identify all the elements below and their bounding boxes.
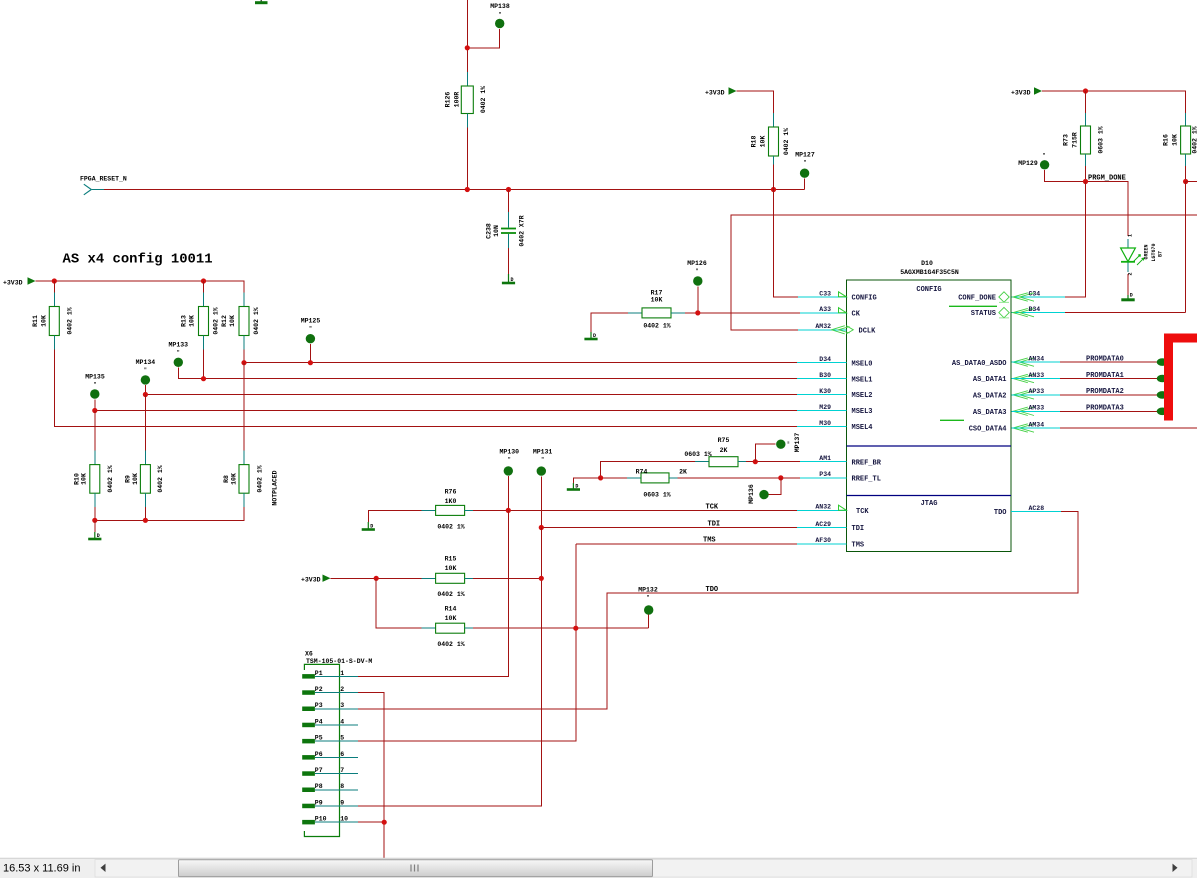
pin AS_DATA0_ASDO AN34 <box>952 355 1044 367</box>
testpoint MP135 <box>85 373 797 410</box>
svg-text:R11: R11 <box>32 315 39 327</box>
bus thick red <box>1164 334 1197 421</box>
svg-text:2: 2 <box>340 686 344 693</box>
svg-text:P3: P3 <box>315 702 323 709</box>
svg-text:R12: R12 <box>221 315 228 327</box>
net TMS <box>576 537 797 545</box>
svg-text:MSEL1: MSEL1 <box>852 376 873 384</box>
svg-text:M30: M30 <box>819 420 831 427</box>
pin AS_DATA3 AM33 <box>973 405 1044 417</box>
junction <box>573 626 578 631</box>
pin P2 <box>302 686 358 695</box>
testpoint MP132 <box>638 587 658 629</box>
svg-text:PROMDATA0: PROMDATA0 <box>1086 355 1124 363</box>
svg-text:D: D <box>575 484 578 490</box>
svg-text:CK: CK <box>852 310 861 318</box>
svg-text:D: D <box>593 333 596 339</box>
svg-text:TCK: TCK <box>706 504 719 512</box>
svg-text:": " <box>177 350 180 356</box>
svg-text:10K: 10K <box>132 473 139 485</box>
svg-text:D: D <box>97 533 100 539</box>
junction <box>241 360 246 365</box>
svg-text:MP133: MP133 <box>169 342 189 349</box>
testpoint MP126 <box>687 260 707 313</box>
wire R18 bottom <box>773 165 775 190</box>
wire to R18 <box>737 91 774 113</box>
resistor R10 <box>74 411 115 508</box>
junction <box>539 525 544 530</box>
wire R16 bottom to right edge <box>1186 181 1197 183</box>
wire CONF_DONE net <box>1012 182 1086 298</box>
svg-text:+3V3D: +3V3D <box>301 577 321 584</box>
svg-text:D: D <box>1130 293 1133 299</box>
svg-text:R18: R18 <box>751 136 758 148</box>
svg-text:0402 1%: 0402 1% <box>643 323 670 330</box>
svg-text:RREF_TL: RREF_TL <box>852 476 881 484</box>
svg-text:P10: P10 <box>315 816 327 823</box>
svg-text:C238: C238 <box>486 223 493 239</box>
resistor R18 <box>751 113 791 165</box>
junction <box>465 45 470 50</box>
svg-text:D10: D10 <box>921 260 933 267</box>
pin MSEL4 M30 <box>797 420 873 432</box>
net FPGA_RESET_N <box>80 176 805 195</box>
svg-text:TDI: TDI <box>708 521 721 529</box>
pin CONFIG C33 <box>798 290 877 302</box>
pin P5 <box>302 735 358 744</box>
pin P3 <box>302 702 358 711</box>
svg-text:MP126: MP126 <box>687 260 707 267</box>
pin P1 <box>302 670 358 679</box>
svg-text:P8: P8 <box>315 783 323 790</box>
status bar with scrollbar <box>0 858 1197 878</box>
svg-text:MP136: MP136 <box>748 484 755 504</box>
junction <box>143 392 148 397</box>
resistor R14 <box>376 578 649 648</box>
svg-text:100R: 100R <box>454 92 461 108</box>
svg-text:TMS: TMS <box>852 541 865 549</box>
pin CSO_DATA4 AM34 <box>940 420 1044 433</box>
svg-text:+3V3D: +3V3D <box>3 279 23 286</box>
wire CSO_DATA4 <box>1012 427 1197 429</box>
junction <box>695 310 700 315</box>
svg-text:AS x4 config 10011: AS x4 config 10011 <box>63 252 213 268</box>
pin MSEL1 B30 <box>797 372 873 384</box>
resistor R16 <box>1163 113 1197 166</box>
svg-text:AC29: AC29 <box>815 521 831 528</box>
wire ground rail <box>95 507 244 520</box>
ground D (R74) <box>567 483 580 490</box>
wire +3V3D rail right <box>1042 91 1186 113</box>
pin AS_DATA1 AN33 <box>973 372 1044 384</box>
svg-text:AM34: AM34 <box>1029 421 1045 428</box>
svg-text:AN34: AN34 <box>1029 355 1045 362</box>
ground D (LED) <box>1121 293 1134 300</box>
testpoint MP136 <box>748 478 781 504</box>
connector X6 <box>304 650 372 836</box>
svg-text:FPGA_RESET_N: FPGA_RESET_N <box>80 176 127 183</box>
svg-text:R15: R15 <box>445 556 457 563</box>
svg-text:P2: P2 <box>315 686 323 693</box>
svg-text:P5: P5 <box>315 735 323 742</box>
svg-text:+3V3D: +3V3D <box>1011 89 1031 96</box>
svg-text:P1: P1 <box>315 670 323 677</box>
svg-text:P7: P7 <box>315 767 323 774</box>
svg-text:": " <box>508 457 511 463</box>
wire R16 bottom <box>1185 166 1187 182</box>
wire TDO net <box>358 512 1078 709</box>
svg-text:M29: M29 <box>819 404 831 411</box>
wire STATUS net <box>1012 312 1186 314</box>
svg-text:": " <box>803 160 806 166</box>
resistor R15 <box>331 556 542 599</box>
pin STATUS B34 <box>971 306 1041 318</box>
svg-text:STATUS: STATUS <box>971 310 996 318</box>
ground D <box>502 274 515 283</box>
svg-text:C34: C34 <box>1029 290 1041 297</box>
testpoint MP129 <box>1018 153 1085 182</box>
wire R10 bottom <box>94 507 96 520</box>
wire CONFIG vertical <box>774 190 799 298</box>
svg-text:PROMDATA1: PROMDATA1 <box>1086 372 1124 380</box>
svg-text:R75: R75 <box>718 437 730 444</box>
svg-text:AM33: AM33 <box>1029 405 1045 412</box>
svg-text:10K: 10K <box>81 473 88 485</box>
pin DCLK AM32 <box>798 323 876 335</box>
svg-text:AM32: AM32 <box>815 323 831 330</box>
junction <box>308 360 313 365</box>
svg-text:MP131: MP131 <box>533 449 553 456</box>
wire R9 bottom <box>144 507 146 520</box>
svg-text:CONFIG: CONFIG <box>852 295 877 303</box>
svg-text:5AGXMB1G4F35C5N: 5AGXMB1G4F35C5N <box>900 269 959 276</box>
pin P4 <box>302 718 358 727</box>
svg-text:2K: 2K <box>679 469 687 476</box>
svg-text:MP127: MP127 <box>795 152 815 159</box>
svg-text:R16: R16 <box>1163 134 1170 146</box>
svg-text:MP130: MP130 <box>500 449 520 456</box>
power +3V3D (right) <box>1011 87 1042 96</box>
wire P10 <box>358 821 384 823</box>
svg-text:": " <box>788 441 794 444</box>
svg-text:1K0: 1K0 <box>445 498 457 505</box>
svg-text:R126: R126 <box>445 92 452 108</box>
svg-text:0603 1%: 0603 1% <box>1098 126 1105 153</box>
svg-text:R14: R14 <box>445 606 457 613</box>
wire R12 bottom / MSEL0 <box>244 350 797 363</box>
svg-text:AN33: AN33 <box>1029 372 1045 379</box>
resistor R9 <box>125 395 165 508</box>
testpoint MP134 <box>136 359 797 395</box>
svg-text:R74: R74 <box>636 469 648 476</box>
svg-text:": " <box>541 457 544 463</box>
svg-text:0402 1%: 0402 1% <box>213 307 220 334</box>
testpoint MP131 <box>533 449 553 528</box>
pin TMS AF30 <box>797 537 864 549</box>
svg-text:10K: 10K <box>1172 134 1179 146</box>
svg-text:": " <box>695 269 698 275</box>
svg-text:B30: B30 <box>819 372 831 379</box>
svg-text:MP138: MP138 <box>490 3 510 10</box>
resistor R12 <box>221 293 260 350</box>
svg-text:GREEN: GREEN <box>1144 244 1150 259</box>
svg-text:0402 1%: 0402 1% <box>67 307 74 334</box>
svg-text:RREF_BR: RREF_BR <box>852 459 882 467</box>
svg-text:MSEL0: MSEL0 <box>852 360 873 368</box>
svg-text:MP125: MP125 <box>301 318 321 325</box>
svg-text:": " <box>1042 153 1045 159</box>
wire LED cathode <box>1127 274 1129 295</box>
svg-text:D: D <box>370 524 373 530</box>
svg-text:TDO: TDO <box>706 586 719 594</box>
svg-text:MP132: MP132 <box>638 587 658 594</box>
junction <box>771 187 776 192</box>
pin P8 <box>302 783 358 792</box>
wire TMS to X6 P5 <box>358 544 576 741</box>
svg-text:X6: X6 <box>305 650 313 657</box>
svg-text:AS_DATA3: AS_DATA3 <box>973 409 1007 417</box>
svg-text:0402 1%: 0402 1% <box>1192 126 1197 153</box>
junction <box>1083 88 1088 93</box>
wire to ground (R74) <box>573 478 600 483</box>
svg-text:AM1: AM1 <box>819 455 831 462</box>
junction <box>201 376 206 381</box>
junction <box>1183 179 1188 184</box>
svg-text:CSO_DATA4: CSO_DATA4 <box>969 426 1007 434</box>
svg-text:2K: 2K <box>720 447 728 454</box>
pin AS_DATA2 AP33 <box>973 388 1044 400</box>
svg-text:10N: 10N <box>493 225 500 237</box>
svg-text:P6: P6 <box>315 751 323 758</box>
svg-text:TDO: TDO <box>994 509 1007 517</box>
svg-text:10K: 10K <box>445 565 457 572</box>
net PROMDATA0 <box>1012 355 1168 366</box>
svg-text:TMS: TMS <box>703 537 716 545</box>
svg-text:10K: 10K <box>760 136 767 148</box>
svg-text:CONFIG: CONFIG <box>916 286 941 294</box>
svg-text:PROMDATA2: PROMDATA2 <box>1086 388 1124 396</box>
clipped power symbol top edge <box>255 0 268 4</box>
svg-text:MSEL3: MSEL3 <box>852 408 873 416</box>
svg-text:4: 4 <box>340 718 344 725</box>
svg-text:R76: R76 <box>445 489 457 496</box>
svg-text:6: 6 <box>340 751 344 758</box>
pin RREF_BR AM1 <box>800 455 882 467</box>
wire TCK to X6 P1 <box>358 510 508 676</box>
svg-text:DCLK: DCLK <box>859 327 877 335</box>
wire P2 gnd vertical <box>358 693 384 859</box>
svg-text:AS_DATA1: AS_DATA1 <box>973 376 1007 384</box>
svg-text:TCK: TCK <box>856 508 869 516</box>
svg-text:MP135: MP135 <box>85 373 105 380</box>
power +3V3D (R15) <box>301 575 331 584</box>
junction <box>143 518 148 523</box>
junction <box>465 187 470 192</box>
svg-text:AN32: AN32 <box>815 504 831 511</box>
pin P10 <box>302 816 358 825</box>
svg-text:7: 7 <box>340 767 344 774</box>
svg-text:3: 3 <box>340 702 344 709</box>
svg-text:10: 10 <box>340 816 348 823</box>
svg-text:0402 1%: 0402 1% <box>437 641 464 648</box>
svg-text:MP134: MP134 <box>136 359 156 366</box>
resistor R13 <box>181 281 220 350</box>
svg-text:0603 1%: 0603 1% <box>643 492 670 499</box>
svg-text:R13: R13 <box>181 315 188 327</box>
svg-text:0402 1%: 0402 1% <box>437 524 464 531</box>
wire R126 bottom <box>466 128 468 190</box>
wire R11 bottom to MSEL4 <box>54 350 797 427</box>
svg-text:MSEL2: MSEL2 <box>852 392 873 400</box>
junction <box>1083 179 1088 184</box>
wire DCLK feed horizontal <box>731 215 1197 330</box>
svg-text:AS_DATA2: AS_DATA2 <box>973 393 1007 401</box>
wire R13 bottom <box>203 350 205 379</box>
svg-text:0402 1%: 0402 1% <box>480 86 487 113</box>
resistor R11 <box>32 281 74 350</box>
resistor R73 <box>1063 113 1105 166</box>
svg-text:D: D <box>511 277 514 283</box>
svg-text:": " <box>144 368 147 374</box>
testpoint MP138 <box>467 3 510 48</box>
svg-text:": " <box>93 382 96 388</box>
pin MSEL2 K30 <box>797 388 873 400</box>
svg-text:10K: 10K <box>189 315 196 327</box>
svg-text:1: 1 <box>1128 234 1134 237</box>
pin P6 <box>302 751 358 760</box>
svg-text:10K: 10K <box>41 315 48 327</box>
junction <box>201 278 206 283</box>
net PROMDATA3 <box>1012 405 1168 416</box>
svg-text:0603 1%: 0603 1% <box>684 451 711 458</box>
wire TDI to X6 P9 <box>358 528 541 807</box>
junction <box>778 475 783 480</box>
svg-text:MP129: MP129 <box>1018 160 1038 167</box>
svg-text:P9: P9 <box>315 799 323 806</box>
svg-text:10K: 10K <box>229 315 236 327</box>
junction <box>92 518 97 523</box>
svg-text:0402 1%: 0402 1% <box>157 465 164 492</box>
svg-text:": " <box>309 326 312 332</box>
pin MSEL3 M29 <box>797 404 873 416</box>
ground D (left) <box>88 532 101 539</box>
svg-text:715R: 715R <box>1072 132 1079 148</box>
pin P9 <box>302 799 358 808</box>
wire STATUS vertical <box>1185 182 1187 313</box>
svg-text:R73: R73 <box>1063 134 1070 146</box>
svg-text:AC28: AC28 <box>1029 505 1045 512</box>
junction <box>598 475 603 480</box>
svg-text:K30: K30 <box>819 388 831 395</box>
svg-text:C33: C33 <box>819 290 831 297</box>
resistor R8 notplaced <box>223 363 279 508</box>
resistor R74 <box>601 469 800 499</box>
junction <box>506 508 511 513</box>
junction <box>539 576 544 581</box>
resistor R126 <box>445 72 488 128</box>
net PROMDATA1 <box>1012 372 1168 383</box>
svg-text:CONF_DONE: CONF_DONE <box>958 295 996 303</box>
svg-text:": " <box>646 595 649 601</box>
svg-text:": " <box>498 12 501 18</box>
testpoint MP130 <box>500 449 520 511</box>
wire R73 bottom <box>1085 166 1087 182</box>
testpoint MP125 <box>301 318 321 363</box>
capacitor C238 <box>486 190 526 275</box>
svg-text:0402 1%: 0402 1% <box>107 465 114 492</box>
pin P7 <box>302 767 358 776</box>
svg-text:0402 X7R: 0402 X7R <box>519 215 526 246</box>
svg-text:10K: 10K <box>651 297 663 304</box>
pin TDO AC28 <box>994 505 1061 517</box>
wire R73 top <box>1085 91 1087 113</box>
wire +3V3D rail left <box>36 281 245 293</box>
resistor R17 <box>591 290 800 333</box>
svg-text:B34: B34 <box>1029 306 1041 313</box>
pin CK A33 <box>800 306 861 318</box>
svg-text:AP33: AP33 <box>1029 388 1045 395</box>
power +3V3D (left) <box>3 277 36 286</box>
pin CONF_DONE C34 <box>949 290 1040 306</box>
junction <box>52 278 57 283</box>
svg-text:R10: R10 <box>74 473 81 485</box>
junction <box>506 187 511 192</box>
svg-text:0402 1%: 0402 1% <box>253 307 260 334</box>
svg-text:MP137: MP137 <box>794 433 801 453</box>
svg-text:0402 1%: 0402 1% <box>437 591 464 598</box>
svg-text:1: 1 <box>340 670 344 677</box>
net PROMDATA2 <box>1012 388 1168 399</box>
net TCK with resistor R76 <box>368 489 797 531</box>
svg-text:PROMDATA3: PROMDATA3 <box>1086 405 1124 413</box>
svg-text:R17: R17 <box>651 290 663 297</box>
svg-text:B7: B7 <box>1158 251 1164 257</box>
svg-text:TDI: TDI <box>852 525 865 533</box>
svg-text:P4: P4 <box>315 718 323 725</box>
pin TDI AC29 <box>797 521 864 533</box>
svg-text:8: 8 <box>340 783 344 790</box>
junction <box>753 459 758 464</box>
ground D (R76) <box>362 522 375 530</box>
svg-text:R8: R8 <box>223 475 230 483</box>
net PRGM_DONE <box>1086 174 1129 236</box>
power +3V3D (mid) <box>705 87 737 96</box>
testpoint MP137 <box>755 433 801 462</box>
pin TCK AN32 <box>797 504 869 516</box>
svg-text:AF30: AF30 <box>815 537 831 544</box>
svg-text:LGT670: LGT670 <box>1151 243 1157 261</box>
wire vertical to R126 from top <box>466 0 468 72</box>
svg-text:10K: 10K <box>445 615 457 622</box>
LED green D? <box>1121 234 1164 276</box>
svg-text:A33: A33 <box>819 306 831 313</box>
svg-text:16.53 x 11.69 in: 16.53 x 11.69 in <box>3 863 80 875</box>
svg-text:9: 9 <box>340 799 344 806</box>
ground D (R17) <box>584 332 597 339</box>
svg-text:P34: P34 <box>819 471 831 478</box>
svg-text:AS_DATA0_ASDO: AS_DATA0_ASDO <box>952 360 1007 368</box>
testpoint MP127 <box>795 152 815 190</box>
svg-text:10K: 10K <box>231 473 238 485</box>
svg-text:R9: R9 <box>125 475 132 483</box>
wire ground stub <box>94 520 96 532</box>
svg-text:5: 5 <box>340 735 344 742</box>
net TDI <box>541 521 797 529</box>
svg-text:NOTPLACED: NOTPLACED <box>272 470 279 505</box>
junction <box>374 576 379 581</box>
svg-text:D34: D34 <box>819 356 831 363</box>
junction <box>92 408 97 413</box>
